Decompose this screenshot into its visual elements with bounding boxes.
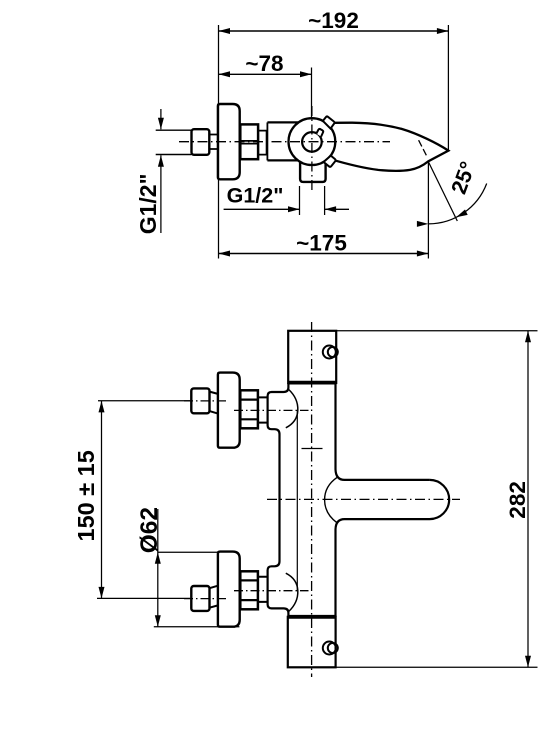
svg-text:~192: ~192 bbox=[308, 8, 359, 33]
svg-text:G1/2": G1/2" bbox=[227, 184, 284, 208]
svg-text:G1/2": G1/2" bbox=[135, 174, 161, 235]
svg-text:~78: ~78 bbox=[245, 51, 283, 76]
svg-text:282: 282 bbox=[505, 481, 530, 519]
svg-text:Ø62: Ø62 bbox=[136, 507, 163, 553]
svg-text:~175: ~175 bbox=[296, 231, 347, 256]
svg-text:150 ± 15: 150 ± 15 bbox=[73, 450, 99, 541]
